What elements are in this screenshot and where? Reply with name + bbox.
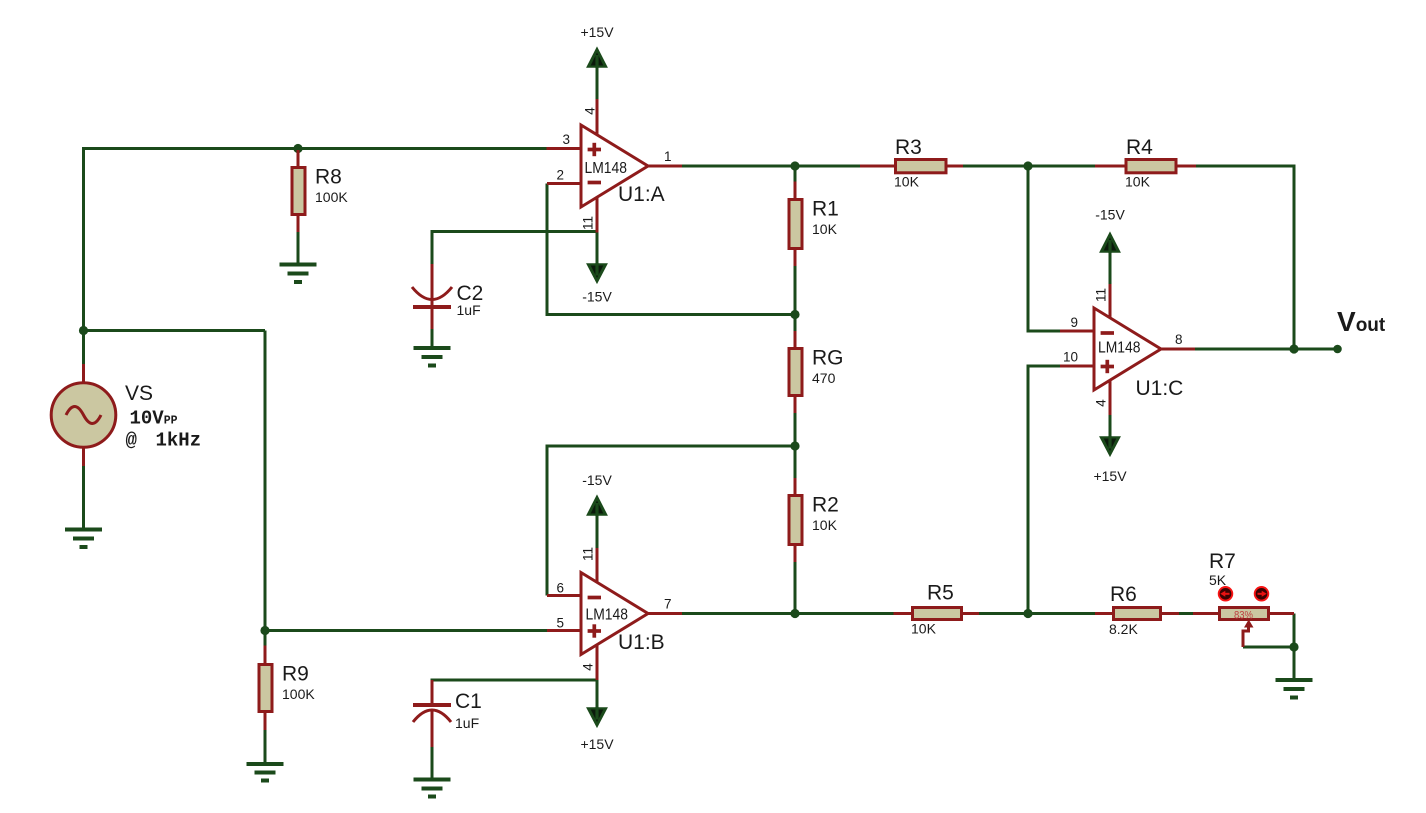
- U1:C pin 9 stub: [1060, 330, 1094, 333]
- op-amp U1:A: [547, 99, 683, 233]
- svg-text:R6: R6: [1110, 583, 1137, 606]
- svg-text:R3: R3: [895, 136, 922, 159]
- svg-text:9: 9: [1070, 315, 1078, 330]
- op-amp U1:C: [1060, 284, 1195, 415]
- wire R5 to R6: [979, 612, 1095, 615]
- node U1:C output junction: [1289, 344, 1298, 353]
- capacitor C2: [412, 264, 483, 348]
- wire U1:C pin10 down to bottom rail: [1028, 366, 1060, 614]
- resistor R5: [894, 582, 980, 637]
- wire C1 to U1:B pin4: [432, 680, 597, 681]
- ground (R8): [280, 265, 317, 283]
- svg-text:4: 4: [583, 107, 598, 115]
- U1:B pin 5 stub: [547, 629, 581, 632]
- svg-text:3: 3: [562, 132, 570, 147]
- wire R4 to feedback vertical: [1196, 166, 1294, 349]
- svg-text:10K: 10K: [812, 221, 838, 237]
- U1:B pin 4 stub: [596, 645, 599, 680]
- U1:C minus/plus input marks: [1101, 333, 1114, 373]
- U1:B pin 7 output stub: [648, 612, 682, 615]
- svg-text:11: 11: [581, 547, 596, 561]
- resistor R6: [1095, 583, 1179, 637]
- svg-text:-15V: -15V: [582, 289, 612, 305]
- svg-text:4: 4: [1094, 399, 1109, 407]
- node R1-RG junction: [790, 310, 799, 319]
- ground (C2): [414, 348, 451, 366]
- svg-text:VS: VS: [125, 382, 153, 405]
- U1:A pin 2 stub: [547, 182, 581, 185]
- svg-text:10K: 10K: [812, 517, 838, 533]
- svg-text:LM148: LM148: [1098, 340, 1141, 357]
- power -15V (U1:B top): [582, 472, 612, 548]
- svg-text:470: 470: [812, 370, 836, 386]
- wire R3 to R4: [963, 165, 1095, 168]
- U1:A pin 3 stub: [547, 147, 582, 150]
- wire U1:B pin6 feedback: [547, 446, 795, 596]
- ground (VS): [65, 530, 102, 548]
- svg-text:U1:B: U1:B: [618, 631, 665, 654]
- wire U1:A output to R3: [682, 165, 860, 168]
- svg-text:R4: R4: [1126, 136, 1153, 159]
- svg-text:+15V: +15V: [580, 736, 614, 752]
- power +15V (U1:B bottom): [580, 680, 614, 752]
- svg-text:8: 8: [1175, 332, 1183, 347]
- svg-text:1uF: 1uF: [455, 715, 479, 731]
- svg-text:10K: 10K: [1125, 174, 1151, 190]
- U1:B pin 6 stub: [547, 594, 581, 597]
- wire R7 wiper to junction: [1243, 646, 1294, 649]
- svg-text:R2: R2: [812, 494, 839, 517]
- power -15V (U1:A bottom): [582, 233, 612, 305]
- node R2 bottom junction: [790, 609, 799, 618]
- ground (R7): [1276, 680, 1313, 698]
- R7 decrement button: [1219, 587, 1233, 601]
- svg-text:R8: R8: [315, 166, 342, 189]
- wire R7 junction to ground: [1293, 647, 1296, 680]
- svg-text:-15V: -15V: [1095, 207, 1125, 223]
- svg-text:@1kHz: @1kHz: [126, 430, 202, 452]
- svg-text:10K: 10K: [911, 621, 937, 637]
- svg-text:4: 4: [581, 663, 596, 671]
- U1:C pin 11 stub: [1109, 284, 1112, 318]
- resistor R1: [789, 166, 839, 315]
- node Vout terminal: [1333, 345, 1342, 354]
- resistor RG: [789, 315, 844, 447]
- wire U1:A pin2 feedback: [547, 184, 795, 315]
- U1:A pin 4 stub: [596, 99, 599, 135]
- power +15V (U1:C bottom): [1093, 415, 1127, 484]
- svg-text:8.2K: 8.2K: [1109, 621, 1138, 637]
- svg-text:11: 11: [1094, 288, 1109, 302]
- resistor R8: [292, 144, 348, 265]
- power +15V (U1:A top): [580, 24, 614, 99]
- U1:A triangle body: [581, 125, 648, 207]
- U1:A pin 11 stub: [596, 198, 599, 233]
- node R9 top junction: [260, 626, 269, 635]
- svg-text:1: 1: [664, 149, 672, 164]
- wire U1:C output to terminal: [1195, 348, 1338, 351]
- wire second rail vertical: [264, 331, 267, 631]
- svg-text:LM148: LM148: [585, 160, 628, 177]
- svg-text:7: 7: [664, 597, 672, 612]
- node R3-R4 junction: [1023, 161, 1032, 170]
- source VS: [51, 364, 201, 530]
- svg-text:-15V: -15V: [582, 472, 612, 488]
- svg-text:+15V: +15V: [1093, 468, 1127, 484]
- svg-text:RG: RG: [812, 347, 844, 370]
- U1:B pin 11 stub: [596, 548, 599, 582]
- wire R6 to R7: [1179, 612, 1193, 615]
- svg-text:1uF: 1uF: [457, 302, 481, 318]
- wire to U1:B pin5: [265, 629, 547, 632]
- node VS top junction: [79, 326, 88, 335]
- U1:C triangle body: [1094, 308, 1161, 390]
- wire R7 right terminal down: [1293, 614, 1296, 648]
- resistor R9: [259, 631, 315, 765]
- op-amp U1:B: [547, 547, 682, 680]
- svg-text:100K: 100K: [315, 189, 348, 205]
- resistor R2: [789, 446, 839, 614]
- svg-text:10K: 10K: [894, 174, 920, 190]
- U1:B minus/plus input marks: [588, 598, 601, 638]
- resistor R3: [860, 136, 963, 190]
- ground (R9): [247, 764, 284, 781]
- wire junction down to U1:C pin9: [1028, 166, 1060, 331]
- wire U1:B output to R5: [682, 612, 894, 615]
- svg-text:83%: 83%: [1234, 610, 1253, 622]
- U1:C pin 8 output stub: [1161, 348, 1195, 351]
- R7 increment button: [1255, 587, 1269, 601]
- potentiometer R7: [1193, 550, 1294, 647]
- svg-text:10: 10: [1063, 350, 1078, 365]
- R7 wiper: [1243, 626, 1249, 647]
- wire C2 to U1:A pin11: [432, 232, 597, 266]
- node U1:A output junction: [790, 161, 799, 170]
- svg-text:R9: R9: [282, 663, 309, 686]
- svg-text:R7: R7: [1209, 550, 1236, 573]
- svg-text:2: 2: [556, 168, 564, 183]
- U1:A plus/minus input marks: [588, 143, 601, 183]
- U1:C pin 10 stub: [1060, 365, 1094, 368]
- node bottom rail pin10 junction: [1023, 609, 1032, 618]
- node R7 junction: [1289, 642, 1298, 651]
- svg-text:R1: R1: [812, 198, 839, 221]
- svg-text:+15V: +15V: [580, 24, 614, 40]
- svg-text:C1: C1: [455, 690, 482, 713]
- svg-text:5K: 5K: [1209, 572, 1227, 588]
- svg-text:6: 6: [556, 581, 564, 596]
- wire top-left horizontal (VS+ to U1:A pin3): [84, 147, 548, 150]
- svg-text:U1:C: U1:C: [1136, 377, 1184, 400]
- svg-text:5: 5: [556, 616, 564, 631]
- wire VS junction to second rail: [84, 329, 266, 332]
- ground (C1): [414, 780, 451, 797]
- svg-text:LM148: LM148: [586, 607, 629, 624]
- svg-text:100K: 100K: [282, 686, 315, 702]
- capacitor C1: [413, 680, 482, 780]
- power -15V (U1:C top): [1095, 207, 1125, 285]
- svg-text:R5: R5: [927, 582, 954, 605]
- U1:B triangle body: [581, 573, 648, 655]
- svg-text:11: 11: [581, 216, 596, 230]
- U1:C pin 4 stub: [1109, 380, 1112, 415]
- svg-text:U1:A: U1:A: [618, 183, 665, 206]
- node RG-R2 junction: [790, 441, 799, 450]
- resistor R4: [1095, 136, 1196, 190]
- U1:A pin 1 output stub: [648, 165, 682, 168]
- wire left vertical: [82, 147, 85, 365]
